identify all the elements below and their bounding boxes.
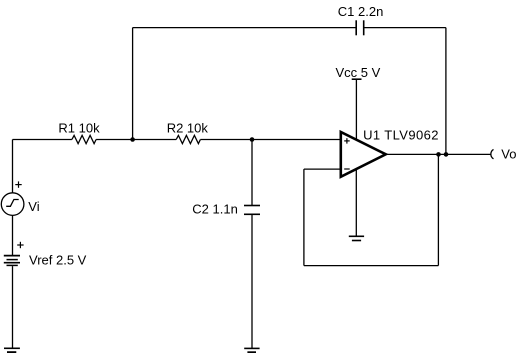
battery Vref [4, 256, 20, 266]
svg-text:C2 1.1n: C2 1.1n [192, 201, 238, 216]
ground below C2 [244, 348, 259, 352]
source Vi plus mark [15, 181, 21, 187]
wire feedback loop right vertical to output [437, 154, 439, 265]
wire inverting input to feedback loop [304, 168, 341, 170]
wire top feedback left segment [133, 27, 357, 29]
source Vref plus mark [17, 242, 23, 248]
wire op-amp negative supply pin to ground [355, 166, 357, 236]
terminal Vo [491, 149, 494, 158]
resistor R1 [72, 135, 96, 143]
resistor R2 [176, 135, 200, 143]
junction dot C1 at output [444, 152, 449, 157]
wire top right corner down to output [445, 28, 447, 155]
wire input node to R1 [13, 139, 72, 141]
wire feedback loop left vertical [303, 169, 305, 266]
svg-text:Vi: Vi [28, 199, 39, 214]
wire Vi to Vref [12, 215, 14, 255]
wire input node down to Vi source [12, 140, 14, 193]
wire node B down to C2 [251, 140, 253, 206]
svg-text:Vo: Vo [501, 146, 516, 161]
capacitor C2 [244, 206, 260, 215]
svg-text:R1 10k: R1 10k [58, 121, 100, 136]
source Vi [1, 193, 24, 216]
svg-text:Vref 2.5 V: Vref 2.5 V [29, 252, 87, 267]
node B junction dot [250, 137, 255, 142]
op-amp U1 [341, 132, 386, 177]
wire Vcc to op-amp positive supply pin [355, 79, 357, 142]
node A junction dot [130, 137, 135, 142]
svg-text:R2 10k: R2 10k [167, 121, 209, 136]
svg-text:U1 TLV9062: U1 TLV9062 [363, 127, 439, 142]
junction dot feedback at output [436, 152, 441, 157]
wire R1 to R2 through node A [96, 139, 176, 141]
wire feedback loop bottom [304, 265, 439, 267]
op-amp noninverting input mark [344, 138, 350, 143]
wire R2 to op-amp noninverting input [200, 139, 340, 141]
power Vcc bar [352, 78, 362, 80]
svg-text:C1 2.2n: C1 2.2n [338, 4, 384, 19]
op-amp inverting input mark [344, 168, 350, 170]
wire C2 to ground [251, 214, 253, 348]
ground below op-amp [349, 236, 364, 240]
wire node A up to C1 [132, 28, 134, 140]
wire C1 to top right corner [364, 27, 446, 29]
svg-text:Vcc 5 V: Vcc 5 V [336, 65, 381, 80]
source Vi waveform mark [6, 200, 19, 207]
wire Vref to ground [12, 266, 14, 348]
capacitor C1 [356, 20, 364, 35]
wire op-amp output to Vo terminal [386, 153, 491, 155]
ground below Vref [4, 348, 20, 352]
